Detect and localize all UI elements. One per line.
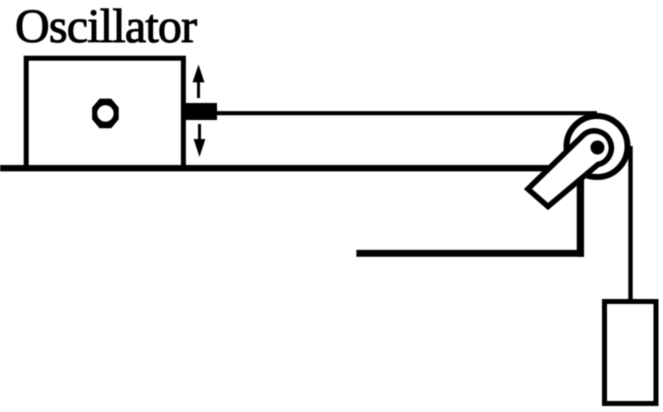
- knob octagon on oscillator: [92, 99, 119, 129]
- up arrow shaft: [197, 80, 200, 98]
- clamp arm with rounded hub end: [528, 131, 611, 207]
- hanging mass: [605, 302, 657, 404]
- string down from pulley to mass: [628, 146, 632, 301]
- pulley wheel: [567, 116, 628, 177]
- knob hole: [97, 105, 113, 121]
- bracket vertical arm: [577, 178, 584, 257]
- down arrow shaft: [198, 124, 201, 141]
- vibrating post: [185, 103, 217, 120]
- label Oscillator: [15, 0, 196, 54]
- down arrow head: [194, 139, 206, 157]
- table line: [0, 165, 552, 171]
- bracket horizontal arm: [356, 250, 584, 257]
- oscillator box: [26, 58, 183, 168]
- string from post to pulley: [217, 111, 597, 115]
- axle dot: [591, 141, 605, 155]
- up arrow head: [193, 65, 205, 83]
